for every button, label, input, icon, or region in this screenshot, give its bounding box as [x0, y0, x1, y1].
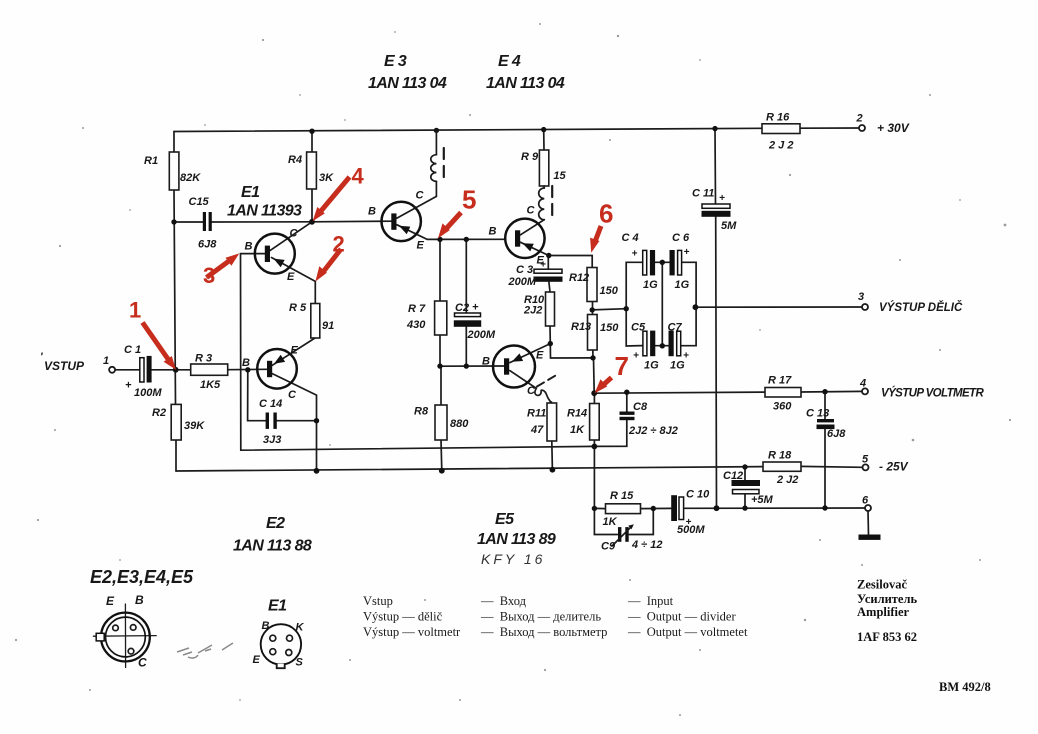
wire E5 emitter [510, 344, 551, 363]
wire E3 collector choke link [397, 181, 437, 218]
svg-text:2 J 2: 2 J 2 [768, 140, 793, 152]
svg-text:1AN 11393: 1AN 11393 [227, 203, 302, 220]
svg-text:E: E [253, 654, 261, 666]
terminal 1 VSTUP [40, 351, 115, 373]
inductor choke E3 collector with dashed core [431, 130, 444, 184]
svg-text:K: K [296, 622, 305, 634]
capacitor C9 trimmer 4-12 [601, 524, 663, 552]
svg-text:B: B [135, 593, 144, 607]
svg-text:VSTUP: VSTUP [44, 359, 85, 373]
svg-text:S: S [296, 657, 304, 669]
wire C14 branch [248, 370, 317, 421]
svg-text:B: B [245, 241, 253, 253]
svg-text:R 7: R 7 [408, 303, 426, 315]
wire R3 to E2 base [228, 368, 267, 370]
svg-text:6J8: 6J8 [827, 428, 846, 440]
svg-text:C: C [290, 228, 299, 240]
svg-text:C12: C12 [723, 470, 743, 482]
capacitor C12 5M [723, 470, 774, 506]
svg-text:5: 5 [862, 454, 869, 466]
svg-text:1G: 1G [670, 360, 685, 372]
resistor R7 430 [406, 301, 447, 335]
svg-text:Zesilovač: Zesilovač [857, 578, 907, 592]
red arrow 5 [438, 185, 476, 239]
transistor E3 1AN11304 [368, 53, 447, 252]
svg-text:E2,E3,E4,E5: E2,E3,E4,E5 [90, 567, 194, 587]
svg-text:R 9: R 9 [521, 151, 539, 163]
terminal 3 vystup delic [858, 291, 963, 314]
wire R4 column [311, 131, 313, 222]
wire E3 base line [312, 220, 392, 223]
svg-text:7: 7 [615, 351, 629, 381]
inductor choke below R9 with dashed core [539, 186, 553, 222]
legend table [363, 594, 748, 639]
resistor R5 91 [289, 302, 334, 338]
svg-text:200M: 200M [508, 276, 537, 288]
resistor R11 47 [527, 403, 557, 441]
svg-text:1: 1 [103, 355, 109, 367]
wire R13 joints [593, 302, 595, 394]
capacitor C6 1G [670, 232, 691, 291]
pencil smudges [177, 643, 233, 658]
wire E1 base feedback column [241, 254, 595, 451]
svg-text:Усилитель: Усилитель [857, 592, 917, 606]
wire R12-R13 junction to divider box [592, 309, 626, 310]
svg-text:4: 4 [859, 378, 866, 390]
resistor R13 150 [571, 315, 619, 351]
terminal 2 +30V [856, 113, 910, 136]
resistor R2 39K [152, 404, 205, 440]
svg-text:+: + [472, 302, 479, 314]
svg-text:Vstup: Vstup [363, 594, 393, 608]
resistor R4 3K [288, 152, 334, 189]
svg-text:4 ÷ 12: 4 ÷ 12 [631, 539, 663, 551]
svg-text:1AN 113 89: 1AN 113 89 [477, 531, 556, 548]
red arrow 6 [590, 199, 613, 253]
capacitor C7 1G [668, 322, 690, 372]
svg-text:— Выход — делитель: — Выход — делитель [480, 610, 601, 624]
svg-text:C8: C8 [633, 401, 648, 413]
svg-text:VÝSTUP VOLTMETR: VÝSTUP VOLTMETR [881, 387, 984, 400]
svg-text:E: E [291, 345, 299, 357]
wire C2 column [465, 239, 467, 366]
wire E1 emitter to R5 [272, 258, 316, 304]
wire R15 C9 loop [594, 508, 671, 534]
svg-text:+: + [125, 380, 132, 392]
svg-text:Výstup — voltmetr: Výstup — voltmetr [363, 625, 461, 639]
svg-text:C 14: C 14 [259, 398, 282, 410]
svg-text:2: 2 [856, 113, 863, 125]
svg-text:R1: R1 [144, 155, 158, 167]
capacitor C10 500M [671, 489, 710, 537]
svg-text:R11: R11 [527, 408, 546, 420]
wire ground bottom rail [685, 507, 865, 509]
svg-text:1G: 1G [643, 279, 658, 291]
svg-text:R 16: R 16 [766, 112, 790, 124]
svg-text:150: 150 [600, 322, 619, 334]
svg-text:+: + [632, 249, 638, 260]
red arrow 1 [129, 298, 176, 370]
capacitor C8 2J2-8J2 [620, 401, 678, 437]
svg-text:- 25V: - 25V [879, 460, 909, 474]
svg-text:E2: E2 [266, 515, 285, 532]
red arrow 4 [313, 164, 365, 222]
terminal 6 and ground [859, 495, 881, 540]
wire C13 branch [824, 392, 826, 508]
svg-text:C 6: C 6 [672, 232, 690, 244]
capacitor C4 1G [622, 232, 659, 291]
svg-text:E 4: E 4 [498, 53, 521, 70]
resistor R1 82K [144, 152, 201, 190]
svg-text:C9: C9 [601, 541, 616, 553]
svg-text:R13: R13 [571, 321, 591, 333]
svg-text:C: C [416, 190, 425, 202]
resistor R3 1K5 [191, 353, 228, 392]
svg-text:C 1: C 1 [124, 344, 141, 356]
svg-text:1G: 1G [644, 360, 659, 372]
svg-text:C 11: C 11 [692, 188, 714, 200]
svg-text:R2: R2 [152, 407, 166, 419]
transistor E2 1AN11388 [233, 345, 312, 555]
wire C11 column [715, 129, 717, 509]
svg-text:C: C [527, 205, 536, 217]
svg-text:E: E [287, 271, 295, 283]
svg-text:C: C [527, 385, 536, 397]
connector E1 pinout [253, 598, 305, 669]
svg-text:E1: E1 [241, 184, 260, 201]
svg-text:— Output — voltmetet: — Output — voltmetet [627, 625, 748, 639]
svg-text:— Input: — Input [627, 594, 674, 608]
connector case E2-E5 pinout [93, 593, 156, 670]
svg-text:+: + [719, 193, 725, 204]
svg-text:Výstup — dělič: Výstup — dělič [363, 610, 443, 624]
svg-text:C7: C7 [668, 322, 683, 334]
svg-text:B: B [262, 620, 270, 632]
wire R7 column [439, 239, 441, 366]
E5 collector dashed mark [537, 374, 559, 387]
svg-text:R 17: R 17 [768, 375, 792, 387]
resistor R8 880 [414, 405, 469, 440]
wire C15 branch [174, 221, 312, 223]
capacitor C13 6J8 [806, 408, 846, 441]
svg-text:R8: R8 [414, 406, 429, 418]
svg-text:2J2 ÷ 8J2: 2J2 ÷ 8J2 [628, 425, 678, 437]
svg-text:C15: C15 [189, 196, 210, 208]
svg-text:15: 15 [553, 170, 566, 182]
wire R14 column down to R15 [593, 393, 595, 508]
svg-text:R14: R14 [567, 408, 587, 420]
svg-text:E: E [106, 594, 115, 608]
svg-text:R 3: R 3 [195, 353, 212, 365]
svg-text:Amplifier: Amplifier [857, 605, 910, 619]
svg-text:+: + [684, 247, 690, 258]
svg-text:VÝSTUP DĚLIČ: VÝSTUP DĚLIČ [879, 301, 963, 314]
svg-text:— Output — divider: — Output — divider [627, 610, 736, 624]
svg-text:6: 6 [599, 199, 613, 229]
red arrow 3 [203, 253, 239, 288]
wire -25V rail [176, 466, 862, 471]
svg-text:1K5: 1K5 [200, 379, 221, 391]
terminal 4 vystup voltmetr [859, 378, 984, 400]
svg-text:E5: E5 [495, 511, 515, 528]
svg-text:1AN 113 04: 1AN 113 04 [368, 75, 447, 92]
svg-text:91: 91 [322, 320, 334, 332]
KFY16 handwritten [481, 551, 545, 567]
red arrow 7 [595, 351, 629, 393]
wire divider output to terminal 3 [695, 306, 862, 308]
svg-text:430: 430 [406, 319, 426, 331]
svg-text:C: C [288, 389, 297, 401]
svg-text:C 3: C 3 [516, 264, 533, 276]
svg-text:E: E [417, 240, 425, 252]
svg-text:C 13: C 13 [806, 408, 829, 420]
svg-text:1AN 113 88: 1AN 113 88 [233, 538, 312, 555]
svg-text:+: + [633, 351, 639, 362]
svg-text:5M: 5M [721, 220, 737, 232]
svg-text:3K: 3K [319, 172, 334, 184]
svg-text:82K: 82K [180, 172, 201, 184]
svg-text:6: 6 [862, 495, 869, 507]
wire E5 base line [440, 365, 504, 367]
svg-text:+ 30V: + 30V [877, 121, 910, 135]
resistor R12 150 [569, 268, 619, 302]
wire R10 to E5 emitter node [550, 326, 593, 358]
capacitor C2 200M [454, 302, 496, 342]
svg-text:1: 1 [129, 298, 141, 323]
svg-text:1K: 1K [603, 516, 618, 528]
capacitor C3 200M [508, 260, 563, 289]
svg-text:47: 47 [530, 424, 544, 436]
resistor R18 2J2 [763, 450, 801, 487]
svg-text:100M: 100M [134, 387, 162, 399]
connector case E2,E3,E4,E5 heading [90, 567, 194, 587]
svg-text:— Выход — вольтметр: — Выход — вольтметр [480, 625, 607, 639]
transistor E5 1AN11389 [477, 346, 556, 549]
svg-text:1AF 853 62: 1AF 853 62 [857, 630, 917, 644]
svg-text:— Вход: — Вход [480, 594, 527, 608]
svg-text:880: 880 [450, 418, 469, 430]
svg-text:R 18: R 18 [768, 450, 792, 462]
resistor R17 360 [765, 375, 801, 413]
wire input node to R3 [115, 369, 191, 371]
wire R12 top [591, 256, 593, 268]
svg-text:E 3: E 3 [384, 53, 407, 70]
svg-text:C2: C2 [455, 302, 469, 314]
wire voltmeter line R14 top to R17 [594, 391, 862, 393]
svg-text:39K: 39K [184, 420, 205, 432]
wire R8 column [440, 366, 443, 471]
wire E3 emitter line to E4 base [397, 225, 505, 240]
wire E5 collector squiggle to R11 [510, 371, 552, 403]
wire E2 collector column [272, 374, 317, 471]
svg-text:B: B [242, 357, 250, 369]
svg-text:R 15: R 15 [610, 490, 634, 502]
svg-text:1K: 1K [570, 424, 585, 436]
red arrow 2 [315, 232, 344, 282]
wire +30V top rail [174, 128, 762, 131]
wire C8 branch [594, 392, 626, 446]
svg-text:2 J2: 2 J2 [776, 474, 798, 486]
svg-text:B: B [482, 356, 490, 368]
drawing number BM 492/8 [939, 680, 991, 694]
svg-text:500M: 500M [677, 524, 705, 536]
svg-text:3: 3 [858, 291, 864, 303]
svg-text:E1: E1 [268, 598, 287, 615]
wire E1 collector [270, 222, 312, 251]
wire left vertical column (R1/C15/input node) [174, 132, 176, 472]
transistor E4 1AN11304 [486, 53, 565, 267]
svg-text:C5: C5 [631, 322, 646, 334]
svg-text:C 10: C 10 [686, 489, 710, 501]
capacitor C1 100M [124, 344, 162, 399]
resistor R14 1K [567, 404, 599, 441]
terminal 5 -25V [862, 454, 909, 474]
svg-text:6J8: 6J8 [198, 239, 217, 251]
resistor R9 15 [521, 150, 567, 186]
title block Zesilovac [857, 578, 917, 645]
svg-text:B: B [368, 206, 376, 218]
svg-text:1AN 113 04: 1AN 113 04 [486, 75, 565, 92]
svg-text:1G: 1G [675, 279, 690, 291]
wire C3 to R10 [549, 282, 550, 292]
svg-text:150: 150 [600, 285, 619, 297]
svg-text:B: B [489, 226, 497, 238]
wire R16 to terminal 2 [800, 127, 859, 129]
svg-text:2J2: 2J2 [523, 305, 542, 317]
svg-text:': ' [40, 351, 43, 363]
wire R5 to E2 emitter [272, 338, 315, 365]
svg-text:R12: R12 [569, 272, 589, 284]
wire C12 branch [744, 467, 746, 508]
svg-text:R4: R4 [288, 154, 302, 166]
transistor E1 1AN11393 [227, 184, 302, 283]
svg-text:R 5: R 5 [289, 302, 307, 314]
svg-text:200M: 200M [467, 329, 496, 341]
svg-text:KFY 16: KFY 16 [481, 551, 545, 567]
wire R11 bottom [551, 441, 554, 470]
capacitor C15 6J8 [189, 196, 218, 251]
svg-text:E: E [536, 350, 544, 362]
capacitor C11 5M [692, 188, 737, 233]
svg-text:E: E [537, 255, 545, 267]
svg-text:4: 4 [352, 164, 365, 189]
wire divider box [626, 262, 696, 346]
capacitor C14 3J3 [259, 398, 282, 446]
svg-text:360: 360 [773, 401, 792, 413]
svg-text:C: C [138, 656, 147, 670]
resistor R15 1K [603, 490, 641, 528]
svg-text:5: 5 [462, 185, 476, 215]
svg-text:+5M: +5M [751, 494, 774, 506]
svg-text:C 4: C 4 [622, 232, 639, 244]
svg-text:3J3: 3J3 [263, 434, 281, 446]
capacitor C5 1G [631, 322, 659, 372]
wire R9/coil to E4 collector [521, 130, 545, 235]
resistor R10 2J2 [523, 292, 555, 326]
resistor R16 2J2 [762, 112, 800, 152]
svg-text:BM 492/8: BM 492/8 [939, 680, 991, 694]
wire E4 emitter node [521, 242, 593, 269]
